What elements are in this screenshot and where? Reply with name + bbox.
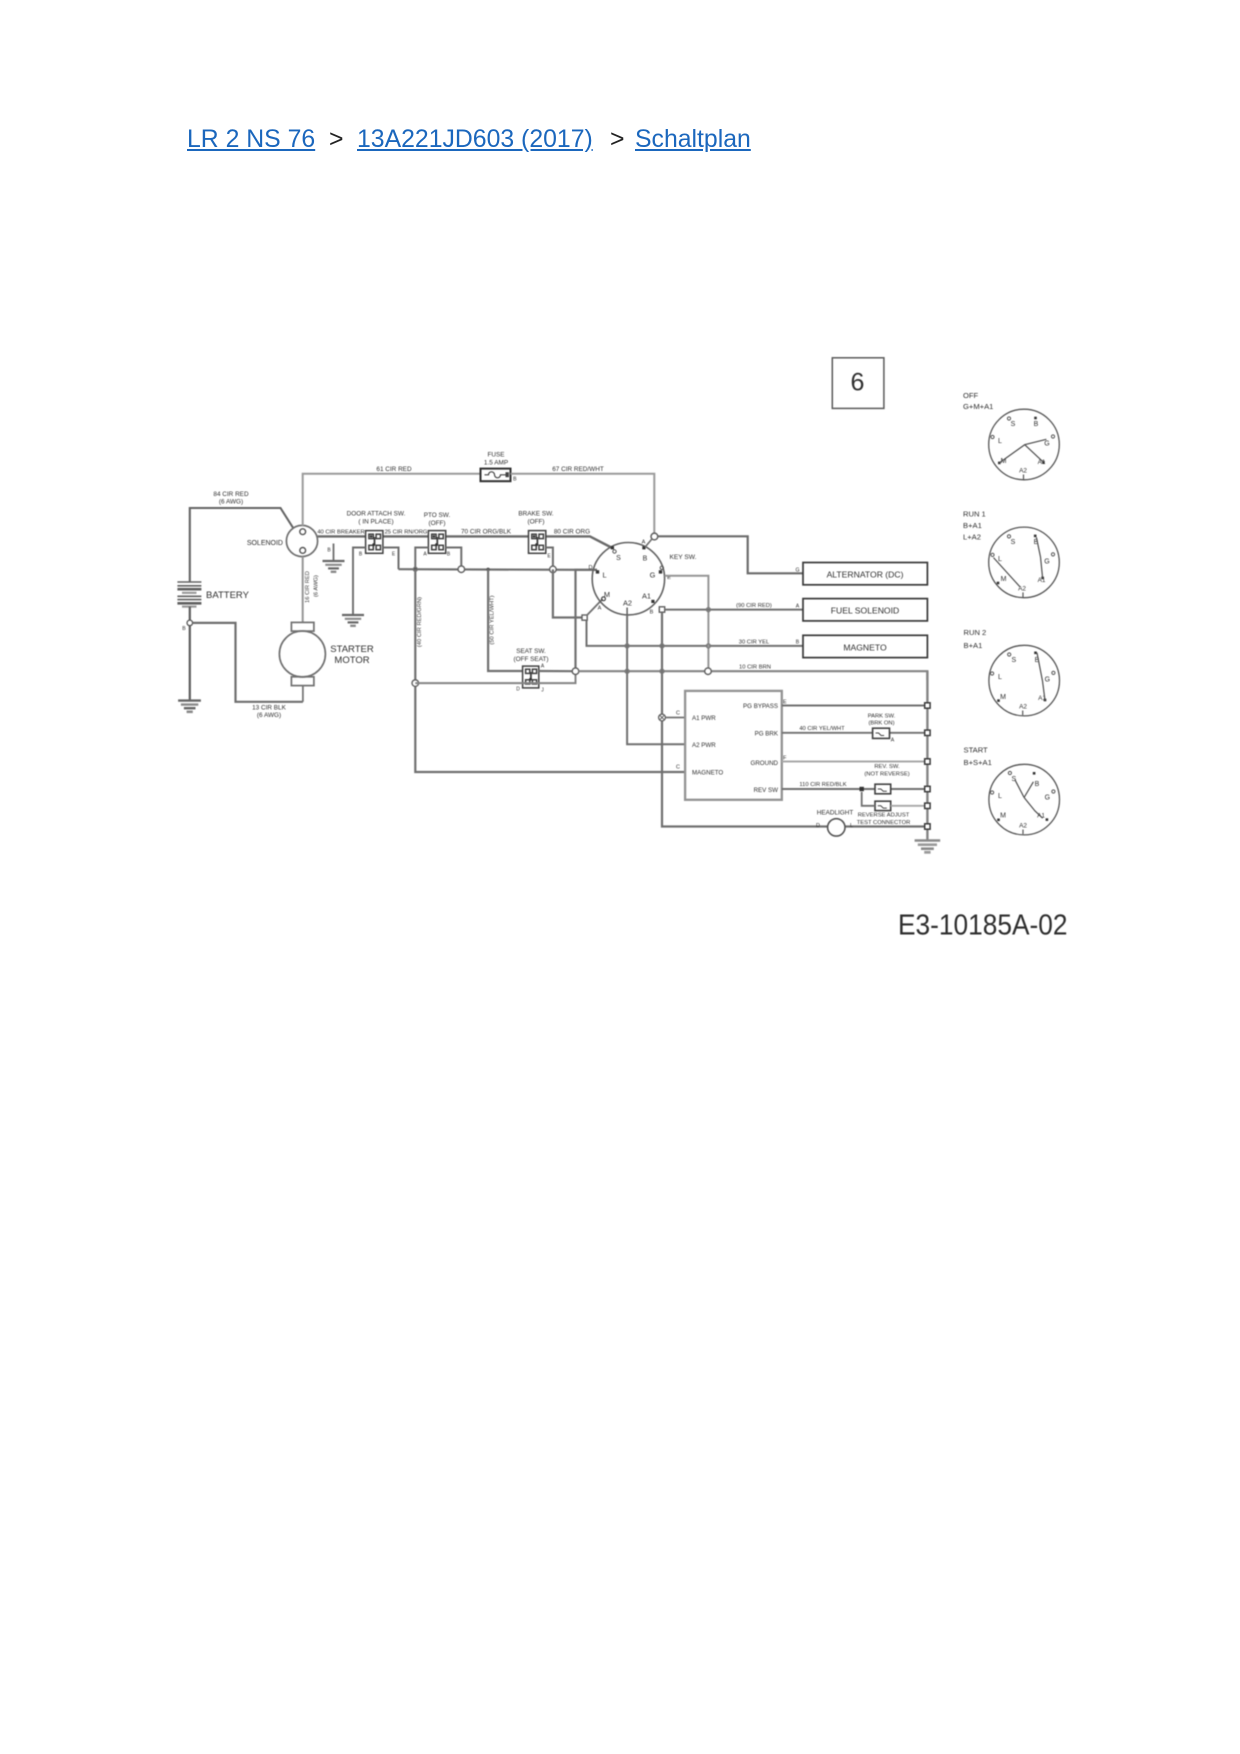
svg-text:A: A (423, 552, 427, 558)
svg-text:B: B (513, 477, 517, 483)
svg-text:A2: A2 (1019, 468, 1027, 475)
node open circle x415 seat row (412, 680, 419, 687)
wire vertical x488 to seat switch (488, 569, 522, 671)
svg-text:30 CIR YEL: 30 CIR YEL (739, 639, 770, 645)
svg-text:G: G (1045, 677, 1050, 684)
wire 61 CIR RED top feed from solenoid to fuse (303, 474, 481, 526)
wire solenoid to starter motor vertical (302, 557, 304, 623)
svg-text:A: A (796, 604, 800, 610)
wire 90 CIR RED key A1 to fuel solenoid (665, 609, 803, 611)
svg-text:13 CIR BLK: 13 CIR BLK (252, 705, 286, 712)
wire door switch right stub down to row (383, 548, 399, 570)
svg-text:E: E (392, 552, 396, 558)
node B battery negative (187, 620, 193, 626)
svg-text:6: 6 (851, 369, 865, 397)
svg-text:J: J (541, 688, 544, 694)
node circle rev row (860, 787, 864, 791)
svg-text:40 CIR YEL/WHT: 40 CIR YEL/WHT (799, 726, 845, 732)
wire key A2 down to module A2 PWR (627, 615, 685, 745)
key terminal G (659, 570, 662, 573)
svg-text:KEY SW.: KEY SW. (670, 554, 697, 561)
svg-text:70 CIR ORG/BLK: 70 CIR ORG/BLK (461, 529, 512, 536)
svg-text:DOOR ATTACH SW.: DOOR ATTACH SW. (347, 511, 406, 518)
wire PG BRK row (782, 732, 873, 734)
node open circle x575 (572, 668, 579, 675)
starter motor M1 (279, 622, 325, 701)
wire brake node to M square (553, 569, 582, 617)
park switch connector (873, 728, 890, 738)
wire seat switch to node 10 CIR BRN (539, 670, 573, 672)
svg-text:G: G (1044, 441, 1049, 448)
svg-text:84 CIR RED: 84 CIR RED (213, 491, 249, 498)
svg-text:START: START (964, 746, 989, 755)
svg-text:L: L (998, 793, 1002, 800)
wire PG BYPASS row (782, 705, 928, 707)
ground solenoid (323, 561, 345, 572)
node square key A1 (659, 607, 664, 612)
fuel solenoid box (803, 599, 927, 621)
svg-text:D: D (516, 687, 520, 693)
seat switch S4 (523, 666, 539, 688)
svg-text:L: L (998, 674, 1002, 681)
svg-text:(OFF): (OFF) (428, 520, 445, 527)
svg-text:B: B (1034, 421, 1039, 428)
svg-text:S: S (1011, 657, 1016, 664)
svg-text:MAGNETO: MAGNETO (692, 770, 723, 777)
wire seat row lower to x575 (415, 671, 575, 683)
svg-text:GROUND: GROUND (751, 760, 779, 767)
wire 67 CIR RED/WHT fuse to key switch A (511, 474, 655, 534)
svg-text:D: D (816, 823, 820, 829)
svg-text:B: B (643, 556, 648, 563)
key position diagram START (964, 746, 1060, 835)
svg-text:A1 PWR: A1 PWR (692, 715, 716, 722)
node junction row x488 (486, 568, 490, 572)
svg-text:(6 AWG): (6 AWG) (219, 499, 243, 506)
wire square to key M terminal (587, 599, 603, 615)
wire REV SW row (782, 788, 875, 790)
svg-text:25 CIR RN/ORG: 25 CIR RN/ORG (385, 530, 428, 536)
svg-text:61 CIR RED: 61 CIR RED (376, 466, 412, 473)
node open circle PTO bottom (458, 566, 465, 573)
brake switch S3 (529, 531, 546, 554)
svg-text:(NOT REVERSE): (NOT REVERSE) (864, 772, 909, 778)
svg-text:B: B (650, 610, 654, 616)
svg-text:E3-10185A-02: E3-10185A-02 (898, 910, 1068, 942)
svg-text:B: B (1035, 781, 1040, 788)
wire key A1 down to module and headlight row (662, 612, 927, 826)
key terminal S (611, 546, 614, 549)
battery BT1 (177, 582, 201, 607)
rev switch connector (875, 784, 891, 794)
wire lower row door/PTO/brake to key L (399, 568, 598, 571)
svg-text:B+A1: B+A1 (963, 521, 982, 530)
wire brake right stub down to node (546, 548, 553, 567)
PTO switch S2 (428, 531, 445, 554)
svg-text:( IN PLACE): ( IN PLACE) (358, 519, 393, 526)
svg-text:PARK SW.: PARK SW. (868, 714, 896, 720)
svg-text:FUSE: FUSE (487, 452, 504, 459)
svg-text:M: M (1000, 813, 1006, 820)
svg-text:B: B (327, 548, 331, 554)
wire A1 PWR stub to module (665, 717, 685, 719)
svg-text:MAGNETO: MAGNETO (843, 642, 887, 652)
svg-text:(40 CIR RED/GRN): (40 CIR RED/GRN) (417, 597, 423, 647)
svg-text:G: G (1045, 795, 1050, 802)
svg-text:E: E (547, 554, 551, 560)
wire GROUND row (782, 761, 928, 763)
bus junction nodes (925, 703, 930, 829)
svg-text:PTO SW.: PTO SW. (424, 512, 451, 519)
alternator box (803, 563, 927, 585)
svg-text:10 CIR BRN: 10 CIR BRN (739, 664, 771, 670)
bus vertical right (926, 671, 928, 839)
svg-text:A1: A1 (642, 592, 651, 601)
svg-text:(6 AWG): (6 AWG) (257, 712, 281, 719)
svg-text:40 CIR BREAKER: 40 CIR BREAKER (317, 530, 364, 536)
svg-text:L: L (998, 438, 1002, 445)
svg-text:FUEL SOLENOID: FUEL SOLENOID (831, 606, 899, 616)
svg-text:PG BRK: PG BRK (755, 730, 779, 737)
svg-text:L+A2: L+A2 (963, 533, 981, 542)
svg-text:MOTOR: MOTOR (334, 655, 369, 666)
ground bus bottom (915, 841, 941, 853)
svg-text:S: S (1011, 421, 1016, 428)
svg-text:REVERSE ADJUST: REVERSE ADJUST (858, 813, 910, 819)
wire key L down leg (576, 570, 598, 668)
svg-text:TEST CONNECTOR: TEST CONNECTOR (857, 820, 911, 826)
svg-text:B+S+A1: B+S+A1 (964, 758, 992, 767)
svg-text:M: M (1001, 576, 1007, 583)
svg-text:(50 CIR YEL/WHT): (50 CIR YEL/WHT) (490, 595, 496, 644)
svg-text:PG BYPASS: PG BYPASS (743, 703, 778, 710)
svg-text:A: A (642, 540, 646, 546)
test connector box (875, 801, 891, 810)
page number box 6 (832, 358, 884, 409)
svg-text:A2: A2 (623, 599, 632, 608)
svg-text:SOLENOID: SOLENOID (247, 540, 283, 547)
svg-text:L: L (602, 571, 606, 580)
ground door switch (342, 615, 364, 626)
magneto box (803, 635, 927, 657)
svg-text:G: G (1044, 558, 1049, 565)
svg-text:B: B (359, 552, 363, 558)
svg-text:HEADLIGHT: HEADLIGHT (817, 810, 854, 817)
svg-text:B+A1: B+A1 (964, 641, 983, 650)
svg-text:(6 AWG): (6 AWG) (314, 575, 320, 597)
svg-text:OFF: OFF (963, 391, 979, 400)
svg-text:BRAKE SW.: BRAKE SW. (518, 511, 553, 518)
module box U1 (685, 691, 782, 800)
svg-text:REV SW: REV SW (754, 787, 779, 794)
svg-text:BATTERY: BATTERY (206, 590, 250, 601)
svg-text:(90 CIR RED): (90 CIR RED) (736, 603, 772, 609)
key position diagram OFF (963, 391, 1059, 480)
svg-text:80 CIR ORG: 80 CIR ORG (554, 529, 590, 536)
node key A circle (651, 533, 658, 540)
door attach switch S1 (366, 531, 383, 554)
junction chevrons on crossing rows (413, 567, 710, 673)
wire key A to alternator (658, 536, 803, 573)
svg-text:A: A (598, 606, 602, 612)
key terminal A/B top (642, 546, 645, 549)
svg-text:RUN 1: RUN 1 (963, 510, 986, 519)
svg-text:L: L (998, 556, 1002, 563)
svg-text:RUN 2: RUN 2 (964, 628, 987, 637)
svg-text:A2 PWR: A2 PWR (692, 742, 716, 749)
wire key E down to 10 CIR BRN (665, 576, 709, 668)
svg-text:ALTERNATOR (DC): ALTERNATOR (DC) (827, 570, 904, 580)
svg-text:16 CIR RED: 16 CIR RED (305, 571, 311, 603)
svg-text:C: C (676, 765, 680, 771)
svg-text:C: C (676, 711, 680, 717)
svg-text:1.5 AMP: 1.5 AMP (484, 460, 508, 467)
key position diagram RUN 1 (963, 510, 1059, 598)
svg-text:110 CIR RED/BLK: 110 CIR RED/BLK (799, 782, 846, 788)
svg-text:REV. SW.: REV. SW. (874, 764, 900, 770)
svg-text:(BRK ON): (BRK ON) (868, 721, 894, 727)
wire square down to 30 CIR YEL row (587, 620, 804, 646)
svg-text:G+M+A1: G+M+A1 (963, 402, 993, 411)
svg-text:M: M (1000, 694, 1006, 701)
wire test connector links (862, 792, 875, 806)
node junction row x415 (414, 567, 418, 571)
wire 10 CIR BRN row (579, 671, 928, 680)
key position diagram RUN 2 (964, 628, 1060, 716)
wire solenoid B terminal to ground (333, 544, 335, 561)
svg-text:SEAT SW.: SEAT SW. (516, 648, 546, 655)
svg-text:(OFF SEAT): (OFF SEAT) (513, 656, 548, 663)
svg-text:STARTER: STARTER (330, 644, 374, 655)
wire battery negative down to ground (189, 607, 191, 700)
svg-text:B: B (447, 552, 451, 558)
svg-text:A: A (891, 738, 895, 744)
svg-text:D: D (588, 565, 592, 571)
key switch KS1 (592, 543, 664, 615)
fuse F1 1.5 AMP (481, 469, 511, 482)
svg-text:A2: A2 (1019, 823, 1027, 830)
wire PTO right stub down to node (446, 548, 462, 567)
wire battery positive to solenoid (84 CIR RED) (190, 508, 294, 582)
svg-text:B: B (796, 640, 800, 646)
svg-text:A: A (541, 664, 545, 670)
wire door switch left stub to ground (353, 548, 366, 615)
node open circle brake bottom (550, 566, 557, 573)
svg-text:L: L (850, 823, 853, 829)
wire vertical x415 to magneto row (415, 569, 685, 772)
solenoid K1 (286, 525, 317, 556)
ground battery (178, 701, 201, 712)
svg-text:S: S (616, 555, 621, 562)
wire PTO left stub down (415, 548, 428, 570)
node A1 PWR crossing (659, 714, 666, 721)
headlight lamp (828, 819, 845, 836)
svg-text:B: B (182, 626, 186, 632)
wire battery negative to starter motor (13 CIR BLK) (193, 623, 303, 702)
svg-text:S: S (1011, 539, 1016, 546)
svg-text:(OFF): (OFF) (527, 519, 544, 526)
svg-text:G: G (650, 571, 656, 580)
node open circle E junction (705, 668, 712, 675)
node square M (582, 615, 587, 620)
svg-text:67 CIR RED/WHT: 67 CIR RED/WHT (552, 466, 604, 473)
svg-text:G: G (795, 568, 799, 574)
wire main switched line solenoid to key S (318, 536, 613, 548)
svg-text:A2: A2 (1019, 704, 1027, 711)
key terminal L (596, 570, 599, 573)
